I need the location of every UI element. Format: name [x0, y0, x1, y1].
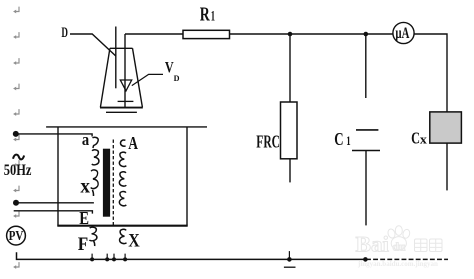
- svg-text:Bai: Bai: [356, 232, 390, 257]
- svg-text:E: E: [79, 208, 89, 228]
- svg-text:1: 1: [211, 9, 215, 25]
- svg-text:V: V: [165, 59, 174, 76]
- svg-text:C: C: [411, 128, 420, 147]
- svg-text:du: du: [393, 240, 406, 254]
- svg-text:A: A: [128, 133, 138, 153]
- svg-text:C: C: [334, 129, 343, 149]
- svg-text:50Hz: 50Hz: [4, 162, 32, 179]
- svg-text:D: D: [174, 73, 180, 83]
- svg-text:µA: µA: [395, 25, 409, 42]
- svg-text:PV: PV: [9, 228, 24, 243]
- svg-text:F: F: [78, 234, 89, 255]
- svg-text:a: a: [82, 130, 90, 149]
- svg-text:FRC: FRC: [256, 132, 280, 152]
- svg-text:jingyan.baidu.com.jingyan: jingyan.baidu.com.jingyan: [357, 260, 438, 268]
- svg-text:x: x: [420, 132, 428, 146]
- svg-text:1: 1: [346, 134, 350, 148]
- svg-text:X: X: [128, 230, 140, 251]
- svg-text:D: D: [61, 25, 68, 41]
- svg-text:R: R: [200, 4, 210, 26]
- svg-text:x: x: [80, 175, 90, 197]
